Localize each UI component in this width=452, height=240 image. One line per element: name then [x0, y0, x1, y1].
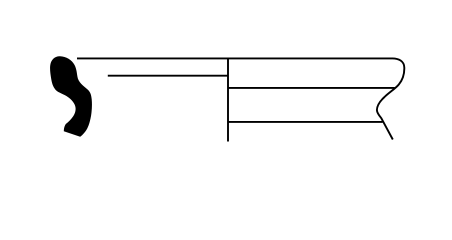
shoulder line (middle right) — [228, 87, 395, 89]
interior surface line (left) — [108, 75, 228, 77]
vertical axis line — [227, 58, 229, 142]
sherd cross-section (filled rim profile) — [50, 56, 92, 137]
lower body line (bottom right) — [228, 121, 383, 123]
rim/stance line with exterior rim outline curve — [77, 58, 404, 139]
